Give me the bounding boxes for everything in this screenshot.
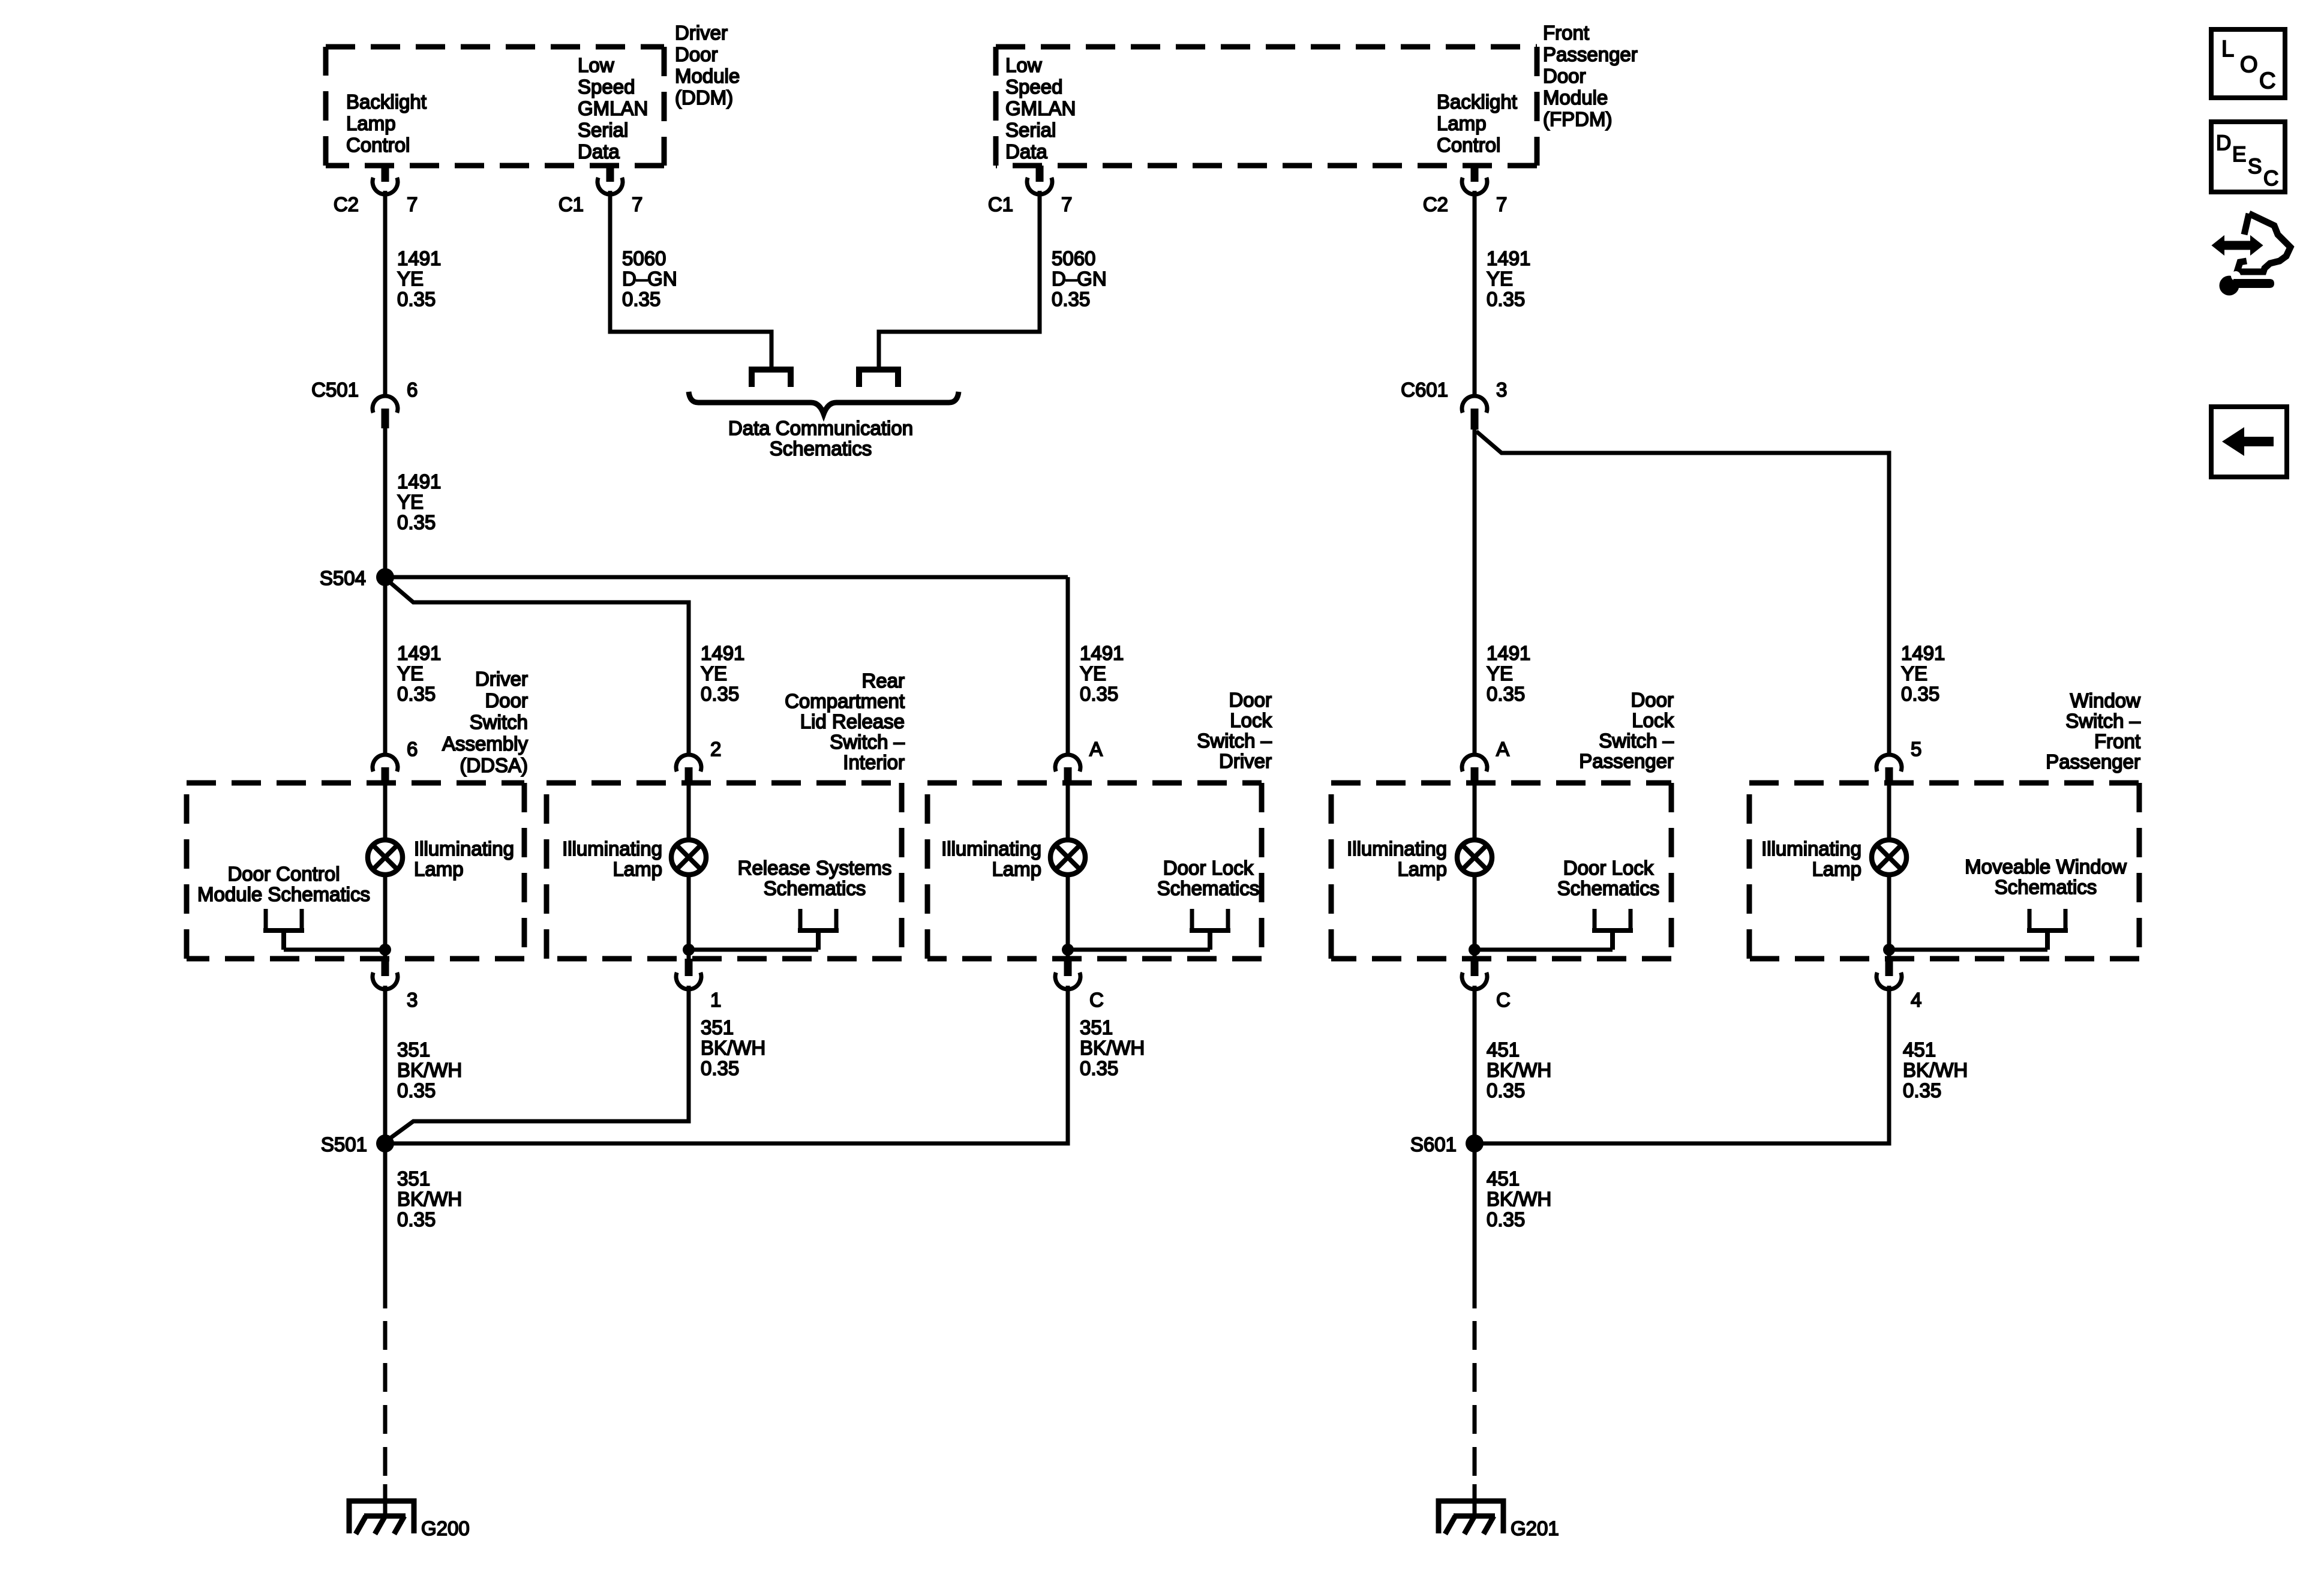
svg-text:Data: Data	[578, 140, 620, 163]
switch box: Window Switch - Front Passenger	[1749, 783, 2139, 959]
svg-text:Data: Data	[1005, 140, 1047, 163]
module name label: Driver Door Module (DDM)	[675, 22, 740, 109]
wire 451 BK/WH 0.35 from pin C to splice S601	[1473, 986, 1477, 1143]
wire 351 BK/WH 0.35 from DDSA pin 3 to splice S501	[383, 986, 388, 1143]
svg-text:0.35: 0.35	[1901, 683, 1939, 705]
svg-text:Module: Module	[1543, 86, 1608, 109]
label G201	[1511, 1517, 1559, 1539]
svg-text:351: 351	[397, 1038, 430, 1061]
svg-text:1491: 1491	[397, 470, 441, 493]
label: Illuminating Lamp	[1761, 837, 1861, 880]
svg-text:1491: 1491	[1901, 642, 1945, 664]
svg-text:3: 3	[1496, 379, 1507, 401]
svg-text:Backlight: Backlight	[1437, 91, 1517, 113]
wire label 1491 YE 0.35	[397, 247, 441, 310]
wire 351 BK/WH 0.35 from pin 1 to splice S501	[389, 986, 689, 1139]
svg-text:Switch –: Switch –	[830, 731, 905, 753]
wire branch from S504 to Rear Compartment Lid Release Switch pin 2	[389, 581, 689, 754]
connector pin C at bottom of switch box (x=2458)	[1462, 959, 1511, 1011]
illuminating lamp (Door Lock Switch - Driver)	[1050, 840, 1085, 875]
svg-text:Switch –: Switch –	[1599, 730, 1674, 752]
wire label 1491 YE 0.35	[701, 642, 744, 705]
svg-text:C1: C1	[559, 193, 584, 215]
connector pin 6 at top of switch box (x=642)	[373, 738, 418, 783]
svg-text:Control: Control	[1437, 134, 1500, 156]
svg-text:0.35: 0.35	[1052, 288, 1090, 310]
in-line connector C501 pin 6	[311, 379, 418, 428]
wire branch from S504 to Door Lock Switch - Driver pin A	[385, 577, 1068, 754]
wire label 1491 YE 0.35	[397, 470, 441, 533]
svg-text:0.35: 0.35	[397, 511, 436, 533]
svg-text:Lamp: Lamp	[612, 858, 662, 880]
junction node (lamp return)	[1883, 944, 1895, 956]
svg-text:5060: 5060	[1052, 247, 1095, 269]
connector C1 pin 7 of FPDM (GMLAN serial data)	[988, 166, 1073, 215]
svg-text:Lamp: Lamp	[992, 858, 1041, 880]
connector C2 pin 7 of FPDM (Backlight Lamp Control output)	[1423, 166, 1508, 215]
svg-text:0.35: 0.35	[397, 288, 436, 310]
svg-text:0.35: 0.35	[1903, 1079, 1941, 1101]
svg-text:G200: G200	[421, 1517, 470, 1539]
wire 351 BK/WH 0.35 from S501 toward ground G200	[383, 1143, 388, 1477]
svg-text:Lid Release: Lid Release	[800, 710, 905, 733]
svg-text:S501: S501	[321, 1133, 367, 1155]
svg-text:0.35: 0.35	[397, 1079, 436, 1101]
reference bracket to Door Lock Schematics	[1592, 909, 1633, 950]
wire label 1491 YE 0.35	[397, 642, 441, 705]
switch name label: Driver Door Switch Assembly (DDSA)	[442, 668, 529, 776]
connector pin 4 at bottom of switch box (x=3149)	[1876, 959, 1921, 1011]
svg-text:YE: YE	[1487, 662, 1513, 685]
wire label 451 BK/WH 0.35	[1487, 1038, 1551, 1101]
wire label 5060 D-GN 0.35	[622, 247, 677, 310]
ground G200	[349, 1484, 414, 1534]
switch name label: Window Switch - Front Passenger	[2046, 689, 2140, 773]
svg-text:Serial: Serial	[1005, 119, 1056, 141]
svg-text:Lamp: Lamp	[346, 112, 396, 134]
label: Illuminating Lamp	[414, 837, 514, 880]
junction node (lamp return)	[1062, 944, 1074, 956]
svg-text:YE: YE	[1487, 268, 1513, 290]
svg-text:351: 351	[1080, 1016, 1113, 1038]
svg-text:0.35: 0.35	[1080, 1057, 1118, 1079]
wire inside box (pin 2 to lamp)	[687, 783, 691, 841]
svg-text:451: 451	[1487, 1038, 1520, 1061]
label: Illuminating Lamp	[562, 837, 662, 880]
svg-text:(FPDM): (FPDM)	[1543, 108, 1612, 130]
svg-text:BK/WH: BK/WH	[1903, 1059, 1968, 1081]
svg-text:351: 351	[397, 1167, 430, 1190]
svg-text:1491: 1491	[1487, 642, 1530, 664]
svg-text:0.35: 0.35	[1487, 1079, 1525, 1101]
svg-text:Schematics: Schematics	[1995, 876, 2097, 898]
svg-text:Low: Low	[1005, 54, 1042, 76]
switch name label: Door Lock Switch - Driver	[1197, 689, 1272, 772]
svg-text:Assembly: Assembly	[442, 733, 529, 755]
wire branch from C601 to Window Switch pin 5	[1476, 431, 1889, 754]
wire 451 BK/WH 0.35 from S601 toward ground G201	[1473, 1143, 1477, 1477]
svg-text:A: A	[1496, 738, 1509, 760]
svg-text:C1: C1	[988, 193, 1013, 215]
icon: LOC reference box	[2211, 29, 2285, 98]
svg-text:E: E	[2232, 143, 2246, 166]
svg-text:C: C	[1496, 989, 1511, 1011]
svg-text:0.35: 0.35	[397, 683, 436, 705]
svg-text:C501: C501	[311, 379, 359, 401]
icon: DESC reference box	[2211, 122, 2285, 192]
reference bracket to Release Systems Schematics	[798, 909, 839, 950]
module box: Driver Door Module (DDM), dashed outline	[326, 47, 664, 166]
svg-text:6: 6	[407, 379, 418, 401]
FPDM internal pin function label: Backlight Lamp Control	[1437, 91, 1517, 156]
svg-text:Illuminating: Illuminating	[941, 837, 1041, 860]
svg-text:YE: YE	[1901, 662, 1927, 685]
svg-text:YE: YE	[701, 662, 727, 685]
label: Data Communication Schematics	[728, 417, 913, 460]
wire label 351 BK/WH 0.35	[397, 1167, 462, 1230]
FPDM internal pin function label: Low Speed GMLAN Serial Data	[1005, 54, 1076, 163]
svg-text:Driver: Driver	[675, 22, 728, 44]
svg-text:Door Lock: Door Lock	[1563, 857, 1654, 879]
svg-text:Schematics: Schematics	[764, 877, 866, 899]
svg-text:0.35: 0.35	[1487, 288, 1525, 310]
svg-text:Door Lock: Door Lock	[1163, 857, 1254, 879]
svg-text:C: C	[2259, 68, 2275, 94]
svg-text:451: 451	[1903, 1038, 1936, 1061]
wire 5060 D-GN 0.35 from FPDM C1-7 to data-bus terminal	[879, 191, 1040, 367]
svg-text:Door: Door	[485, 689, 528, 712]
svg-text:7: 7	[632, 193, 642, 215]
label: Illuminating Lamp	[941, 837, 1041, 880]
svg-text:A: A	[1089, 738, 1103, 760]
svg-text:Driver: Driver	[475, 668, 528, 690]
svg-text:6: 6	[407, 738, 418, 760]
svg-text:5: 5	[1911, 738, 1921, 760]
illuminating lamp (DDSA)	[368, 840, 403, 875]
wire 351 BK/WH 0.35 from pin C to splice S501	[385, 986, 1068, 1143]
svg-text:1491: 1491	[701, 642, 744, 664]
module name label: Front Passenger Door Module (FPDM)	[1543, 22, 1638, 130]
svg-text:Speed: Speed	[578, 76, 635, 98]
svg-text:S601: S601	[1410, 1133, 1457, 1155]
wire 451 BK/WH 0.35 from Window Switch pin 4 to splice S601	[1475, 986, 1889, 1143]
svg-text:2: 2	[710, 738, 721, 760]
svg-text:Illuminating: Illuminating	[414, 837, 514, 860]
svg-text:D: D	[2216, 131, 2231, 155]
svg-text:BK/WH: BK/WH	[1080, 1037, 1145, 1059]
svg-text:Schematics: Schematics	[770, 437, 872, 460]
connector pin A at top of switch box (x=1780)	[1055, 738, 1103, 783]
svg-text:1: 1	[710, 989, 721, 1011]
svg-text:Door: Door	[1631, 689, 1674, 711]
svg-text:BK/WH: BK/WH	[701, 1037, 765, 1059]
svg-text:C: C	[2263, 167, 2278, 190]
junction node (lamp return)	[1469, 944, 1481, 956]
svg-text:5060: 5060	[622, 247, 666, 269]
connector C1 pin 7 of DDM (GMLAN serial data)	[559, 166, 643, 215]
switch box: Door Lock Switch - Driver	[927, 783, 1262, 959]
svg-text:C2: C2	[1423, 193, 1448, 215]
svg-text:Data Communication: Data Communication	[728, 417, 913, 439]
svg-text:BK/WH: BK/WH	[397, 1059, 462, 1081]
splice S504	[320, 567, 394, 589]
reference bracket to Door Control Module Schematics	[263, 909, 304, 950]
svg-text:YE: YE	[397, 268, 424, 290]
svg-text:Compartment: Compartment	[785, 690, 905, 712]
illuminating lamp (Rear Compartment Lid Release Switch)	[671, 840, 706, 875]
connector pin 2 at top of switch box (x=1148)	[676, 738, 721, 783]
wire label 1491 YE 0.35	[1487, 247, 1530, 310]
svg-text:Door: Door	[675, 43, 718, 65]
svg-text:Lock: Lock	[1632, 709, 1674, 731]
label: Door Lock Schematics	[1557, 857, 1660, 899]
svg-text:YE: YE	[1080, 662, 1106, 685]
svg-text:D–GN: D–GN	[622, 268, 677, 290]
wire from lamp return node to reference bracket	[1068, 948, 1210, 952]
svg-text:Illuminating: Illuminating	[1347, 837, 1447, 860]
svg-text:451: 451	[1487, 1167, 1520, 1190]
wire label 1491 YE 0.35	[1901, 642, 1945, 705]
svg-text:1491: 1491	[1080, 642, 1124, 664]
svg-text:Passenger: Passenger	[1543, 43, 1638, 65]
connector pin 3 at bottom of switch box (x=642)	[373, 959, 418, 1011]
svg-text:351: 351	[701, 1016, 734, 1038]
svg-text:0.35: 0.35	[1080, 683, 1118, 705]
wire label 5060 D-GN 0.35	[1052, 247, 1107, 310]
wire from lamp to pin 1 node	[687, 875, 691, 959]
svg-text:Interior: Interior	[843, 751, 905, 773]
wire from lamp to pin 4 node	[1887, 875, 1891, 959]
switch name label: Rear Compartment Lid Release Switch - Interior	[785, 670, 905, 773]
svg-text:0.35: 0.35	[622, 288, 660, 310]
connector C2 pin 7 of DDM (Backlight Lamp Control output)	[334, 166, 418, 215]
icon: back arrow box	[2211, 407, 2287, 477]
label: Door Control Module Schematics	[197, 863, 370, 905]
svg-text:Control: Control	[346, 134, 410, 156]
svg-text:S: S	[2248, 155, 2262, 178]
svg-text:(DDSA): (DDSA)	[460, 754, 528, 776]
svg-text:Door: Door	[1543, 65, 1586, 87]
off-page terminal (right serial data)	[859, 370, 898, 387]
svg-text:Module: Module	[675, 65, 740, 87]
label: Release Systems Schematics	[738, 857, 892, 899]
svg-text:Lamp: Lamp	[414, 858, 464, 880]
svg-text:Lamp: Lamp	[1437, 112, 1487, 134]
svg-text:Low: Low	[578, 54, 614, 76]
svg-text:GMLAN: GMLAN	[578, 97, 648, 119]
reference bracket to Door Lock Schematics	[1190, 909, 1230, 950]
svg-text:7: 7	[1061, 193, 1072, 215]
svg-text:0.35: 0.35	[701, 683, 739, 705]
connector pin A at top of switch box (x=2458)	[1462, 738, 1509, 783]
reference bracket to Moveable Window Schematics	[2027, 909, 2068, 950]
svg-text:C601: C601	[1401, 379, 1448, 401]
label: Illuminating Lamp	[1347, 837, 1447, 880]
svg-text:4: 4	[1911, 989, 1921, 1011]
wire from lamp return node to reference bracket	[1475, 948, 1613, 952]
svg-text:Window: Window	[2070, 689, 2141, 712]
module box: Front Passenger Door Module (FPDM), dashed outline	[996, 47, 1537, 166]
off-page terminal (left serial data)	[752, 370, 791, 387]
wire label 451 BK/WH 0.35	[1487, 1167, 1551, 1230]
svg-text:1491: 1491	[1487, 247, 1530, 269]
svg-text:Moveable Window: Moveable Window	[1965, 855, 2127, 878]
wire from lamp return node to reference bracket	[1889, 948, 2047, 952]
svg-text:Lock: Lock	[1230, 709, 1272, 731]
switch box: DDSA part 2 / Rear Compartment Lid Release Switch	[547, 783, 902, 959]
connector pin C at bottom of switch box (x=1780)	[1055, 959, 1104, 1011]
wire label 351 BK/WH 0.35	[397, 1038, 462, 1101]
splice S601	[1410, 1133, 1484, 1155]
svg-text:3: 3	[407, 989, 418, 1011]
svg-text:S504: S504	[320, 567, 366, 589]
label: Moveable Window Schematics	[1965, 855, 2127, 898]
in-line connector C601 pin 3	[1401, 379, 1507, 430]
svg-text:Lamp: Lamp	[1812, 858, 1861, 880]
wire label 1491 YE 0.35	[1487, 642, 1530, 705]
junction node (lamp return)	[683, 944, 695, 956]
label: Door Lock Schematics	[1157, 857, 1260, 899]
switch box: Door Lock Switch - Passenger	[1331, 783, 1671, 959]
label G200	[421, 1517, 470, 1539]
switch name label: Door Lock Switch - Passenger	[1579, 689, 1674, 772]
svg-text:Illuminating: Illuminating	[562, 837, 662, 860]
svg-text:YE: YE	[397, 491, 424, 513]
svg-text:O: O	[2240, 52, 2258, 77]
svg-text:0.35: 0.35	[701, 1057, 739, 1079]
illuminating lamp (Window Switch - Front Passenger)	[1872, 840, 1906, 875]
wire inside box (pin A to lamp)	[1473, 783, 1477, 841]
svg-text:G201: G201	[1511, 1517, 1559, 1539]
svg-text:Lamp: Lamp	[1397, 858, 1447, 880]
DDM internal pin function label: Backlight Lamp Control	[346, 91, 427, 156]
svg-text:Illuminating: Illuminating	[1761, 837, 1861, 860]
svg-text:Passenger: Passenger	[2046, 751, 2140, 773]
svg-text:Schematics: Schematics	[1557, 877, 1660, 899]
svg-text:0.35: 0.35	[1487, 683, 1525, 705]
svg-text:7: 7	[407, 193, 418, 215]
svg-text:D–GN: D–GN	[1052, 268, 1107, 290]
wire 1491 YE 0.35 from C601 to Door Lock Switch - Passenger pin A	[1473, 430, 1477, 754]
wire 1491 YE 0.35 from DDM C2-7 to C501	[383, 191, 388, 395]
wire from reference bracket to lamp return node	[284, 948, 385, 952]
svg-text:Door Control: Door Control	[227, 863, 340, 885]
svg-text:GMLAN: GMLAN	[1005, 97, 1076, 119]
svg-text:Passenger: Passenger	[1579, 750, 1674, 772]
svg-text:Module Schematics: Module Schematics	[197, 883, 370, 905]
wire from lamp to pin 3 node	[383, 875, 388, 959]
svg-text:7: 7	[1496, 193, 1507, 215]
svg-text:YE: YE	[397, 662, 424, 685]
svg-text:1491: 1491	[397, 642, 441, 664]
svg-text:C2: C2	[334, 193, 359, 215]
svg-text:Speed: Speed	[1005, 76, 1062, 98]
connector pin 5 at top of switch box (x=3149)	[1876, 738, 1921, 783]
svg-text:Serial: Serial	[578, 119, 628, 141]
svg-text:BK/WH: BK/WH	[397, 1188, 462, 1210]
svg-text:Switch: Switch	[470, 711, 528, 733]
illuminating lamp (Door Lock Switch - Passenger)	[1457, 840, 1492, 875]
brace: refer to Data Communication Schematics	[689, 392, 959, 414]
svg-text:Schematics: Schematics	[1157, 877, 1260, 899]
wire 1491 YE 0.35 from C501 to splice S504	[383, 428, 388, 577]
svg-text:C: C	[1089, 989, 1104, 1011]
connector pin 1 at bottom of switch box (x=1148)	[676, 959, 721, 1011]
wire inside DDSA box (pin 6 to lamp)	[383, 783, 388, 841]
wire label 1491 YE 0.35	[1080, 642, 1124, 705]
wire 1491 YE 0.35 from S504 to DDSA pin 6	[383, 577, 388, 754]
svg-text:Door: Door	[1229, 689, 1272, 711]
wire 5060 D-GN 0.35 from DDM C1-7 to data-bus terminal	[610, 191, 771, 367]
svg-text:Backlight: Backlight	[346, 91, 427, 113]
svg-text:0.35: 0.35	[1487, 1208, 1525, 1230]
wire inside box (pin 5 to lamp)	[1887, 783, 1891, 841]
svg-text:Front: Front	[1543, 22, 1589, 44]
svg-text:Release Systems: Release Systems	[738, 857, 892, 879]
wire 1491 YE 0.35 from FPDM C2-7 to C601	[1473, 191, 1477, 395]
svg-text:Switch –: Switch –	[2065, 710, 2140, 732]
svg-text:Driver: Driver	[1219, 750, 1272, 772]
wire from lamp to pin C node	[1066, 875, 1070, 959]
wire inside box (pin A to lamp)	[1066, 783, 1070, 841]
icon: component repair reference (arrows and wrench)	[2212, 214, 2290, 296]
svg-text:L: L	[2221, 37, 2234, 62]
switch box: Driver Door Switch Assembly (DDSA) part 1	[187, 783, 524, 959]
svg-text:Front: Front	[2094, 730, 2140, 752]
junction node (DDSA lamp return)	[379, 944, 391, 956]
svg-text:Switch –: Switch –	[1197, 730, 1272, 752]
wire label 451 BK/WH 0.35	[1903, 1038, 1968, 1101]
svg-text:0.35: 0.35	[397, 1208, 436, 1230]
wire label 351 BK/WH 0.35	[701, 1016, 765, 1079]
svg-text:BK/WH: BK/WH	[1487, 1059, 1551, 1081]
svg-text:1491: 1491	[397, 247, 441, 269]
wire label 351 BK/WH 0.35	[1080, 1016, 1145, 1079]
splice S501	[321, 1133, 394, 1155]
wire from lamp to pin C node	[1473, 875, 1477, 959]
DDM internal pin function label: Low Speed GMLAN Serial Data	[578, 54, 648, 163]
svg-text:BK/WH: BK/WH	[1487, 1188, 1551, 1210]
ground G201	[1439, 1484, 1503, 1534]
wire from lamp return node to reference bracket	[689, 948, 818, 952]
svg-text:(DDM): (DDM)	[675, 86, 733, 109]
svg-text:Rear: Rear	[861, 670, 905, 692]
